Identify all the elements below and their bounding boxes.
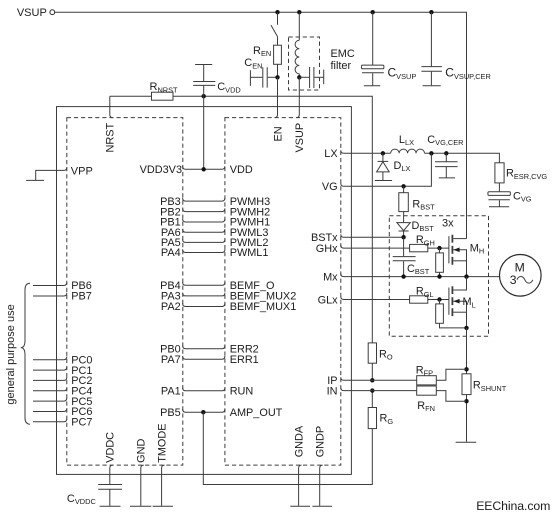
node junction RO-IP: [370, 378, 374, 382]
capacitor CVSUP,CER: [421, 12, 490, 85]
ground bar DLX: [375, 180, 392, 182]
node junction rail-EN: [275, 10, 279, 14]
wire bond PB1-PWMH1: [183, 219, 225, 222]
node junction rail-CVSUPCER: [429, 10, 433, 14]
ground bar CVG: [489, 206, 509, 208]
node junction BSTx-DBST: [401, 235, 405, 239]
wire bond PA4-PWML1: [183, 249, 225, 252]
diode DLX: [377, 153, 411, 180]
svg-text:general purpose use: general purpose use: [5, 304, 17, 404]
svg-text:PB7: PB7: [71, 291, 92, 303]
diode DBST: [397, 220, 434, 237]
wire pin PC1: [33, 367, 67, 370]
left die dashed box: [67, 118, 183, 466]
wire pin PC6: [33, 408, 67, 411]
ground bar GNDP: [312, 505, 332, 507]
svg-text:PA1: PA1: [161, 386, 181, 398]
node junction LX-VG: [429, 151, 433, 155]
wire VSUP top rail: [55, 12, 467, 238]
wire pin Mx row: [341, 274, 500, 277]
svg-text:filter: filter: [331, 60, 352, 72]
motor M 3~: [500, 254, 542, 296]
wire pin VSUP: [296, 77, 299, 117]
resistor REN: [253, 37, 281, 78]
wire pin PB7: [33, 293, 67, 296]
resistor RESR,CVG: [495, 163, 547, 192]
node junction rail-EMC: [297, 10, 301, 14]
wire pin LX row: [341, 150, 391, 153]
wire ML source to RSHUNT: [466, 328, 468, 374]
svg-text:NRST: NRST: [105, 123, 117, 153]
inductor LLX: [391, 134, 425, 154]
transistor ML: [449, 277, 476, 328]
svg-text:PC7: PC7: [71, 417, 92, 429]
switch S1 (enable): [271, 12, 278, 36]
ground bar CVDDC: [100, 505, 121, 507]
svg-text:3: 3: [510, 273, 517, 287]
wire VDD3V3 bias rail: [110, 96, 373, 343]
wire bond PB3-PWMH3: [183, 198, 225, 201]
resistor RFP: [416, 364, 437, 385]
svg-text:Mx: Mx: [323, 272, 338, 284]
node junction EN-CEN-REN: [275, 75, 279, 79]
capacitor CVG (electrolytic): [488, 190, 532, 206]
node junction RSHUNT bottom: [464, 399, 468, 403]
wire pin PC0: [33, 357, 67, 360]
node junction RSHUNT top: [464, 367, 468, 371]
svg-text:GNDA: GNDA: [294, 425, 306, 457]
resistor gate-source MH: [436, 248, 444, 277]
svg-text:LX: LX: [324, 148, 338, 160]
svg-text:AMP_OUT: AMP_OUT: [230, 407, 283, 419]
resistor RG: [368, 391, 393, 429]
wire bond PA6-PWML3: [183, 229, 225, 232]
svg-text:VDDC: VDDC: [105, 432, 117, 463]
svg-text:EMC: EMC: [331, 48, 355, 60]
svg-text:VDD3V3: VDD3V3: [140, 164, 182, 176]
resistor RO: [368, 343, 393, 380]
wire bond PB5-AMP_OUT: [183, 409, 225, 412]
node VSUP terminal: [17, 7, 55, 19]
node junction Mx-MH source: [464, 274, 468, 278]
node junction CVDD-VDD: [202, 167, 206, 171]
IC outer package box: [57, 107, 352, 475]
driver stage 3x dashed box: [389, 216, 488, 337]
svg-text:VG: VG: [322, 181, 338, 193]
wire pin EN: [275, 77, 278, 117]
svg-text:GLx: GLx: [318, 294, 339, 306]
right die dashed box: [225, 118, 341, 466]
wire pin PC2: [33, 377, 67, 380]
resistor RNRST: [150, 81, 179, 100]
label EMC filter: [331, 48, 355, 72]
capacitor CVDDC: [67, 485, 122, 507]
resistor RSHUNT: [462, 374, 507, 442]
node junction RG-IN: [370, 388, 374, 392]
resistor RGH: [410, 234, 435, 252]
svg-text:GNDP: GNDP: [315, 426, 327, 457]
node junction gate MH: [437, 246, 441, 250]
node junction LX-DLX: [381, 151, 385, 155]
wire pin PC5: [33, 398, 67, 401]
capacitor CBST: [393, 237, 430, 276]
node junction Mx-CBST: [401, 274, 405, 278]
capacitor CVDD: [193, 65, 241, 170]
capacitor C (EMC filter): [299, 67, 323, 88]
ground bar CVSUP,CER: [423, 85, 441, 87]
node junction PB5 feedback: [201, 410, 205, 414]
wire bond PA1-RUN: [183, 388, 225, 391]
wire bond PA5-PWML2: [183, 239, 225, 242]
node junction CVDD-rail: [202, 94, 206, 98]
ground bar CVSUP: [364, 85, 381, 87]
wire pin VDDC: [110, 465, 113, 484]
wire VDD3V3 to VDD bond: [183, 166, 225, 169]
svg-text:GND: GND: [136, 438, 148, 462]
svg-text:EEChina.com: EEChina.com: [476, 499, 550, 513]
wire pin PB6: [33, 282, 67, 285]
svg-text:PWML1: PWML1: [230, 247, 269, 259]
wire bond PB2-PWMH2: [183, 208, 225, 211]
svg-text:PB5: PB5: [160, 407, 181, 419]
wire RFP to RSHUNT top: [436, 369, 466, 380]
node junction VSUP-EMC: [297, 75, 301, 79]
svg-text:GHx: GHx: [316, 243, 338, 255]
svg-text:RUN: RUN: [230, 386, 254, 398]
resistor gate-source ML: [436, 300, 467, 328]
wire pin PC4: [33, 388, 67, 391]
wire bond PA7-ERR1: [183, 356, 225, 359]
wire pin VG row: [341, 153, 432, 186]
wire pin GLx row: [341, 297, 449, 300]
wire pin GND: [141, 465, 144, 506]
wire pin VPP + ground: [26, 166, 93, 181]
node junction VG-RBST: [401, 184, 405, 188]
node junction ML source: [464, 326, 468, 330]
svg-text:VPP: VPP: [71, 166, 93, 178]
wire bond PB4-BEMF_O: [183, 282, 225, 285]
capacitor CEN: [244, 57, 277, 87]
node junction rail-CVSUP: [371, 10, 375, 14]
wire pin PC7: [33, 419, 67, 422]
svg-text:PA2: PA2: [161, 301, 181, 313]
wire RFN to RSHUNT bottom: [436, 391, 466, 402]
ground bar CVGCER: [439, 177, 455, 179]
node junction LX-CVGCER: [444, 151, 448, 155]
EMC filter dashed box: [289, 37, 320, 90]
wire pin GNDA: [299, 465, 302, 506]
resistor RBST: [399, 186, 435, 222]
svg-text:ERR1: ERR1: [230, 354, 259, 366]
capacitor CVSUP (electrolytic): [362, 12, 417, 85]
brace general purpose use: [21, 283, 30, 424]
inductor L (EMC filter): [295, 12, 299, 77]
wire AMP_OUT to RG net: [203, 412, 372, 484]
ground bar GND: [130, 505, 151, 507]
svg-text:TMODE: TMODE: [157, 423, 169, 462]
resistor RGL: [410, 286, 434, 304]
resistor RFN: [417, 386, 437, 413]
svg-text:EN: EN: [272, 126, 284, 141]
wire bond PA2-BEMF_MUX1: [183, 303, 225, 306]
svg-text:3x: 3x: [442, 217, 454, 229]
ground bar GNDA: [290, 505, 310, 507]
wire pin IN row: [341, 388, 417, 391]
ground bar RSHUNT: [456, 441, 477, 443]
wire pin GHx row: [341, 245, 449, 248]
svg-text:PA7: PA7: [161, 354, 181, 366]
wire pin GNDP: [320, 465, 323, 506]
wire pin IP row: [341, 377, 417, 380]
node junction Mx-RgsH: [437, 274, 441, 278]
wire bond PA3-BEMF_MUX2: [183, 293, 225, 296]
svg-text:BEMF_MUX1: BEMF_MUX1: [230, 301, 297, 313]
ground bar TMODE: [153, 505, 173, 507]
svg-text:VSUP: VSUP: [17, 7, 47, 19]
wire pin TMODE: [162, 465, 165, 506]
svg-text:VDD: VDD: [230, 164, 253, 176]
transistor MH: [449, 235, 484, 277]
capacitor CVGCER: [427, 134, 463, 178]
wire bond PB0-ERR2: [183, 346, 225, 349]
node junction gate ML: [437, 297, 441, 301]
wire pin NRST: [110, 96, 113, 117]
wire pin BSTx row: [341, 234, 404, 237]
wire LX to RESR: [425, 153, 500, 163]
svg-text:VSUP: VSUP: [294, 123, 306, 153]
svg-text:IN: IN: [327, 386, 338, 398]
svg-text:PA4: PA4: [161, 247, 181, 259]
